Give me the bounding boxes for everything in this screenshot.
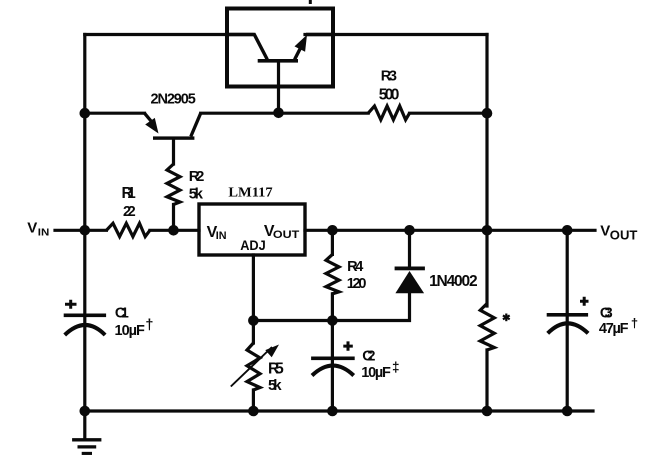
- svg-text:OUT: OUT: [273, 229, 300, 241]
- svg-text:R1: R1: [122, 185, 137, 202]
- svg-text:C1: C1: [115, 306, 129, 322]
- svg-text:5k: 5k: [268, 377, 282, 394]
- svg-text:10µF: 10µF: [361, 365, 391, 381]
- svg-text:IN: IN: [216, 230, 227, 242]
- svg-text:47µF: 47µF: [599, 321, 629, 337]
- svg-text:†: †: [631, 315, 638, 330]
- svg-text:ADJ: ADJ: [240, 238, 266, 253]
- svg-text:‡: ‡: [392, 360, 400, 375]
- svg-text:C2: C2: [362, 348, 375, 364]
- svg-text:IN: IN: [38, 227, 50, 239]
- svg-text:10µF: 10µF: [115, 323, 146, 339]
- svg-text:R4: R4: [347, 259, 363, 275]
- svg-text:V: V: [27, 220, 37, 237]
- svg-text:22: 22: [123, 204, 136, 220]
- svg-text:500: 500: [379, 86, 400, 103]
- svg-text:†: †: [145, 318, 153, 334]
- svg-text:1N4002: 1N4002: [429, 273, 478, 290]
- svg-text:R3: R3: [381, 69, 397, 85]
- svg-text:R2: R2: [189, 168, 205, 185]
- svg-text:OUT: OUT: [610, 227, 638, 242]
- svg-text:LM117: LM117: [228, 185, 273, 200]
- svg-text:2N2905: 2N2905: [151, 92, 196, 108]
- svg-text:R5: R5: [268, 361, 284, 378]
- svg-text:5k: 5k: [189, 186, 204, 203]
- svg-text:C3: C3: [600, 306, 613, 322]
- svg-text:120: 120: [347, 276, 367, 292]
